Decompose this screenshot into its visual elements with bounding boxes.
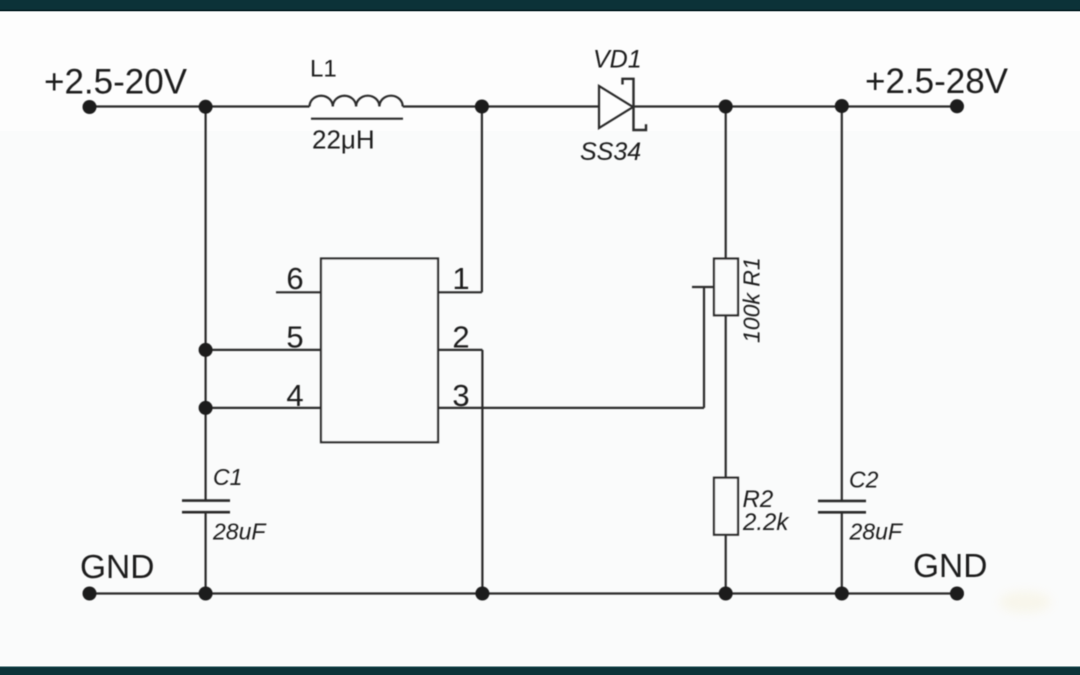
svg-text:2.2k: 2.2k xyxy=(742,509,790,536)
svg-text:L1: L1 xyxy=(310,56,337,83)
svg-text:5: 5 xyxy=(286,320,303,355)
svg-text:SS34: SS34 xyxy=(580,138,641,166)
svg-text:GND: GND xyxy=(913,548,987,585)
svg-text:+2.5-20V: +2.5-20V xyxy=(44,63,188,102)
svg-text:4: 4 xyxy=(286,378,303,413)
svg-text:3: 3 xyxy=(452,378,469,413)
svg-text:1: 1 xyxy=(452,261,469,296)
svg-text:C2: C2 xyxy=(849,467,879,493)
svg-text:22μH: 22μH xyxy=(312,125,375,155)
svg-text:100k R1: 100k R1 xyxy=(739,257,765,343)
svg-text:28uF: 28uF xyxy=(849,519,904,545)
svg-text:+2.5-28V: +2.5-28V xyxy=(865,62,1009,101)
svg-text:GND: GND xyxy=(80,549,154,586)
svg-text:VD1: VD1 xyxy=(593,46,642,74)
svg-text:C1: C1 xyxy=(213,464,242,490)
svg-text:6: 6 xyxy=(286,261,303,296)
svg-text:2: 2 xyxy=(452,320,469,355)
svg-text:28uF: 28uF xyxy=(212,519,267,545)
